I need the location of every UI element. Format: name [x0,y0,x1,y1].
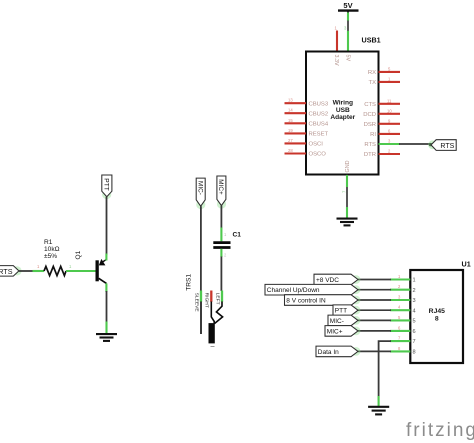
svg-text:13: 13 [288,98,293,103]
wire Q1 emitter to ground [105,283,107,333]
pin CBUS4 [285,122,307,124]
net label Data In [316,346,358,357]
pin 6 [390,330,410,332]
svg-text:8: 8 [435,316,439,323]
svg-text:SLEEVE: SLEEVE [193,293,199,313]
junction dot at RTS label tip [429,143,432,146]
pin TX [379,81,401,83]
wire R1 to Q1 base (green) [66,270,96,272]
svg-text:5: 5 [413,319,416,325]
net label MIC- [328,315,358,326]
power symbol 5V [338,1,359,13]
svg-text:2: 2 [413,288,416,294]
pin 1 [390,278,410,280]
svg-text:OSCO: OSCO [309,152,327,158]
svg-text:Wiring: Wiring [333,100,353,107]
svg-text:±5%: ±5% [44,253,57,260]
wire Data In to pin 8 [358,350,391,352]
pin CTS [379,103,401,105]
svg-text:15: 15 [288,118,293,123]
wire +8 VDC to pin 1 [358,279,391,281]
net label MIC+ (vertical) [217,176,226,209]
svg-text:PTT: PTT [335,308,347,315]
net label +8 VDC [314,274,358,285]
svg-text:11: 11 [387,98,392,103]
pin LEFT (green) [221,291,223,302]
pin CBUS3 [285,102,307,104]
jack tip mark [211,346,215,348]
svg-text:CBUS2: CBUS2 [309,111,329,117]
SECTION: RJ45 bottom right [265,260,471,415]
jack sleeve contact [200,302,202,335]
jack tip spring contact [214,302,222,324]
svg-text:RTS: RTS [364,142,376,148]
wire RTS pin to RTS net label [399,143,430,145]
pin DTR [379,153,401,155]
svg-text:RX: RX [368,70,376,76]
net label 8 V control IN [285,295,359,306]
svg-text:10: 10 [387,108,392,113]
svg-text:RTS: RTS [0,267,13,276]
wire MIC- to pin 5 [358,319,391,321]
wire 8 V control IN to pin 3 [358,299,391,301]
svg-text:MIC-: MIC- [330,318,344,325]
svg-text:1: 1 [413,278,416,284]
ground symbol (left) [96,334,117,341]
svg-text:27: 27 [288,138,293,143]
transistor Q1 [96,259,107,284]
svg-text:DCD: DCD [363,112,376,118]
wire MIC+ to pin 6 [358,330,391,332]
svg-text:OSCI: OSCI [309,142,324,148]
pin 5 [390,319,410,321]
pin RX [379,71,401,73]
svg-text:GND: GND [345,160,351,172]
svg-text:CBUS4: CBUS4 [309,122,329,128]
wire GND pin to ground [346,175,348,218]
svg-text:6: 6 [413,329,416,335]
svg-text:CBUS3: CBUS3 [309,101,329,107]
glow at RTS label tip [428,140,437,149]
svg-text:USB: USB [336,107,350,114]
wire PTT to pin 4 [358,309,391,311]
svg-text:+8 VDC: +8 VDC [316,277,339,284]
svg-text:RESET: RESET [309,132,329,138]
SECTION: USB adapter top [285,1,457,225]
svg-text:MIC+: MIC+ [217,179,224,195]
pin R1 left (green) [33,270,45,272]
pin RTS (connected, green) [379,143,401,145]
svg-text:PTT: PTT [103,178,110,190]
pins 1-8 (green stubs) [390,280,410,352]
wire pin 7 to ground [379,341,391,400]
SECTION: left transistor [0,175,117,341]
ground symbol (USB) [337,219,358,226]
jack plug body [209,323,215,343]
chip title RJ45 8 [429,308,445,323]
svg-text:8 V control IN: 8 V control IN [286,297,326,304]
wire RTS label to R1 [19,270,33,272]
svg-text:19: 19 [288,128,293,133]
svg-text:10kΩ: 10kΩ [44,246,60,253]
capacitor C1 [213,243,230,248]
wire MIC+ to C1 [220,206,222,242]
net label PTT [333,305,358,316]
pin DCD [379,113,401,115]
svg-text:RTS: RTS [440,143,454,150]
pin Q1 collector (green) [105,254,107,261]
SECTION: middle TRS jack [186,176,242,347]
net label MIC- (vertical) [196,178,205,209]
svg-text:LEFT: LEFT [214,293,220,305]
pin 3 [390,299,410,301]
svg-text:5V: 5V [343,1,352,10]
left pins CBUS3 CBUS2 CBUS4 RESET OSCI OSCO [285,103,307,153]
net label Channel Up/Down [265,284,358,295]
svg-text:7: 7 [413,339,416,345]
value label R1 10kΩ ±5% [44,239,60,260]
svg-text:RJ45: RJ45 [429,308,445,315]
right pin numbers [387,66,392,153]
left pin labels [309,101,329,157]
svg-text:Channel Up/Down: Channel Up/Down [267,287,320,294]
svg-text:Data In: Data In [318,349,339,356]
wire end green at ground [378,396,380,406]
svg-text:MIC-: MIC- [196,181,203,195]
svg-text:28: 28 [288,148,293,153]
svg-text:3: 3 [413,298,416,304]
net label PTT (vertical) [102,175,112,199]
wire 5V to USB1 pin 5V [347,12,349,52]
svg-text:TRS1: TRS1 [186,274,193,291]
right pins RX TX CTS DCD DSR RI DTR [379,72,401,154]
wire Channel Up/Down to pin 2 [358,289,391,291]
pin 8 [390,350,410,352]
pin RESET [285,132,307,134]
svg-text:8: 8 [413,350,416,356]
ground symbol (RJ45) [368,407,389,415]
svg-text:DSR: DSR [364,122,376,128]
glow at RTS left label tip [12,266,21,275]
pin CBUS2 [285,112,307,114]
outer pin numbers [398,274,401,351]
pin 2 [390,289,410,291]
pin DSR [379,123,401,125]
svg-text:USB1: USB1 [362,35,381,44]
svg-text:4: 4 [413,308,416,314]
chip U=USB1 body [306,52,379,175]
svg-text:U1: U1 [462,260,471,269]
jack ring contact [211,302,214,324]
svg-text:Q1: Q1 [75,250,82,259]
svg-text:TX: TX [368,80,376,86]
svg-text:3.3V: 3.3V [333,55,339,66]
pin 7 [390,340,410,342]
pin 4 [390,309,410,311]
right pin labels [363,70,376,158]
svg-text:fritzing: fritzing [406,420,474,441]
pin OSCO [285,152,307,154]
resistor R1 zigzag [44,266,66,275]
wires net labels to pins [358,280,391,352]
inner pin numbers 1-8 [413,278,416,356]
svg-text:RI: RI [370,132,376,138]
wire C1 to TRS1 left [221,249,227,291]
net label glows [352,275,361,356]
svg-text:MIC+: MIC+ [327,328,343,335]
chip title Wiring USB Adapter [330,100,355,122]
net label RTS (left, clipped) [0,266,19,277]
svg-text:C1: C1 [233,232,242,239]
chip U1 body [410,270,463,363]
pin OSCI [285,142,307,144]
wire PTT to Q1 collector [106,197,108,255]
pin SLEEVE (green) [200,291,202,302]
svg-text:R1: R1 [44,239,53,246]
net label RTS (right) [431,140,456,151]
net label MIC+ [325,326,358,337]
svg-text:Adapter: Adapter [330,114,355,121]
pin RI [379,133,401,135]
wire MIC- to TRS1 sleeve [200,206,202,291]
svg-text:14: 14 [288,108,293,113]
svg-text:CTS: CTS [364,102,376,108]
svg-text:DTR: DTR [364,152,376,158]
pin RIGHT (red, unconnected) [210,291,212,302]
svg-text:5V: 5V [344,55,350,62]
pin 3.3V (unconnected) [335,26,338,52]
left pin numbers [288,98,293,153]
svg-text:RIGHT: RIGHT [204,293,210,308]
